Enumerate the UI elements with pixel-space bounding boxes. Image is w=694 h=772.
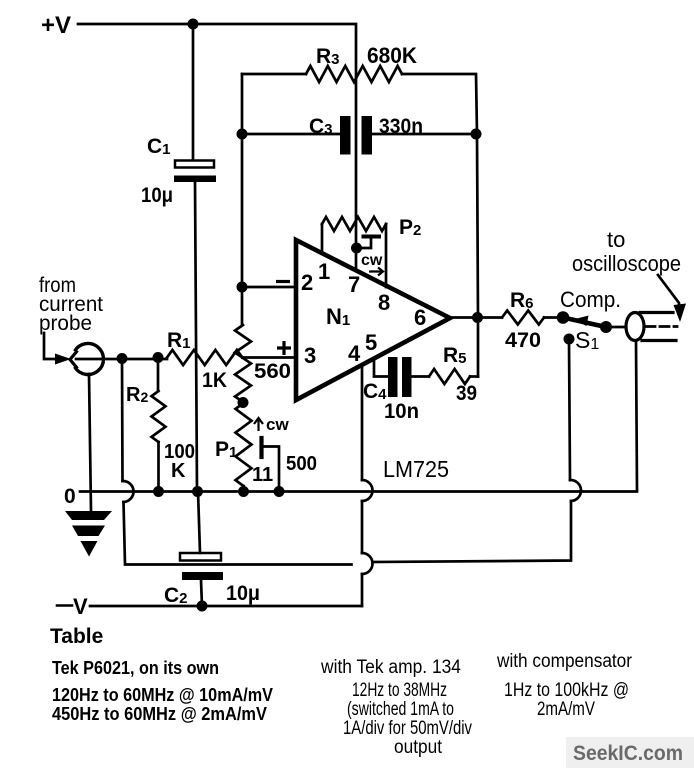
- svg-text:+V: +V: [41, 12, 71, 39]
- svg-text:4: 4: [348, 341, 361, 366]
- svg-text:10n: 10n: [384, 400, 419, 423]
- svg-text:probe: probe: [39, 312, 92, 335]
- svg-text:1K: 1K: [202, 369, 227, 392]
- svg-text:1: 1: [318, 259, 330, 284]
- svg-text:(switched 1mA to: (switched 1mA to: [347, 699, 454, 720]
- svg-text:3: 3: [304, 343, 316, 368]
- svg-text:Table: Table: [50, 625, 103, 648]
- svg-text:500: 500: [286, 453, 317, 475]
- svg-text:120Hz to 60MHz @ 10mA/mV: 120Hz to 60MHz @ 10mA/mV: [52, 685, 273, 705]
- svg-text:680K: 680K: [367, 43, 417, 68]
- svg-text:6: 6: [414, 305, 426, 330]
- svg-text:470: 470: [505, 329, 541, 352]
- svg-text:11: 11: [252, 464, 273, 486]
- svg-text:with Tek amp. 134: with Tek amp. 134: [320, 657, 461, 678]
- svg-text:Tek P6021, on its own: Tek P6021, on its own: [52, 658, 219, 678]
- svg-text:2mA/mV: 2mA/mV: [537, 699, 595, 720]
- svg-text:7: 7: [348, 272, 360, 297]
- svg-text:1A/div for 50mV/div: 1A/div for 50mV/div: [343, 718, 472, 739]
- svg-text:5: 5: [365, 330, 377, 355]
- svg-text:450Hz to 60MHz @ 2mA/mV: 450Hz to 60MHz @ 2mA/mV: [52, 704, 267, 724]
- svg-text:Comp.: Comp.: [560, 287, 621, 312]
- svg-text:to: to: [607, 227, 625, 252]
- svg-text:39: 39: [456, 382, 477, 405]
- svg-text:K: K: [171, 460, 186, 482]
- svg-text:10μ: 10μ: [141, 184, 173, 207]
- svg-text:cw: cw: [266, 415, 289, 434]
- svg-text:12Hz to 38MHz: 12Hz to 38MHz: [352, 680, 447, 701]
- svg-text:cw: cw: [361, 252, 383, 269]
- svg-text:8: 8: [378, 290, 390, 315]
- svg-text:0: 0: [64, 485, 76, 508]
- svg-text:330n: 330n: [379, 115, 423, 138]
- svg-text:560: 560: [254, 360, 291, 383]
- svg-text:2: 2: [301, 270, 313, 295]
- svg-text:oscilloscope: oscilloscope: [572, 251, 681, 276]
- svg-text:SeekIC.com: SeekIC.com: [573, 742, 683, 765]
- svg-text:LM725: LM725: [383, 456, 449, 482]
- svg-text:with compensator: with compensator: [496, 651, 633, 672]
- svg-text:10μ: 10μ: [226, 582, 260, 605]
- svg-text:output: output: [394, 737, 443, 758]
- svg-text:V: V: [73, 594, 88, 619]
- svg-text:1Hz to 100kHz @: 1Hz to 100kHz @: [504, 680, 629, 701]
